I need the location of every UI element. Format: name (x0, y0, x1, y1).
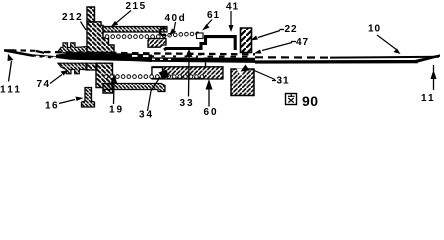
leader 31 (252, 70, 276, 81)
svg-text:215: 215 (126, 1, 147, 12)
hub upper block (87, 22, 114, 53)
small square at coil end (197, 33, 204, 39)
leader 10 (377, 35, 397, 50)
svg-text:61: 61 (207, 10, 220, 21)
svg-text:90: 90 (302, 93, 319, 109)
leader 34 (148, 77, 161, 111)
bar 16 (82, 88, 95, 108)
leader 22 (258, 31, 280, 38)
svg-text:19: 19 (109, 105, 124, 116)
strip 215 (103, 27, 167, 33)
leader 61 (207, 20, 212, 26)
leader 33 (188, 57, 191, 97)
needle upper wall step (36, 51, 44, 53)
svg-text:47: 47 (296, 37, 309, 48)
needle lower wall left (5, 51, 56, 58)
figure caption: CJK glyph approximation (286, 94, 297, 105)
svg-text:10: 10 (368, 24, 381, 35)
lower coil row (104, 75, 204, 79)
needle upper wall right (dashed then solid) (255, 56, 332, 58)
small hatched box 40d (148, 39, 166, 48)
notch in block 31 (237, 69, 246, 77)
leader 212 (81, 22, 87, 31)
leader 16 (59, 100, 75, 104)
leader 215 (116, 11, 131, 24)
needle shaft band under hub (56, 53, 152, 62)
svg-text:60: 60 (204, 107, 219, 118)
vertical bar 212 (87, 7, 95, 22)
upper coil row (105, 32, 199, 38)
bent rod (164, 37, 235, 50)
svg-text:74: 74 (37, 79, 51, 90)
lower strip (152, 67, 223, 79)
leader 60 (208, 90, 210, 107)
lower wedge part with teeth (58, 63, 87, 74)
white dots lower wall left (34, 57, 58, 58)
leader 47 (262, 42, 296, 51)
svg-text:11: 11 (421, 93, 436, 104)
needle lower wall right (255, 60, 418, 64)
hook ring (160, 28, 167, 35)
tick connector (205, 63, 207, 68)
mid step piece (86, 63, 97, 70)
needle left tip (4, 49, 14, 52)
svg-text:212: 212 (62, 12, 83, 23)
block 31 (231, 69, 254, 96)
svg-text:34: 34 (139, 110, 154, 121)
leader 11 (433, 65, 435, 90)
leader 19 (113, 84, 116, 104)
leader 74 (50, 75, 62, 84)
svg-text:33: 33 (180, 98, 195, 109)
hub lower block (96, 63, 113, 93)
bore dashed white line (36, 56, 56, 57)
svg-text:16: 16 (45, 101, 59, 112)
leader 111 (9, 61, 12, 82)
svg-text:41: 41 (226, 2, 239, 13)
needle upper wall left (dashed) (4, 49, 11, 51)
needle right tip bevel (413, 54, 440, 63)
bottom flange bar (103, 84, 165, 92)
lower strip left white box (152, 68, 163, 79)
upper wedge part with teeth (58, 43, 87, 53)
needle upper wall mid (dashed) (44, 52, 255, 54)
svg-text:111: 111 (0, 85, 22, 96)
block 22 (241, 28, 252, 53)
svg-text:31: 31 (277, 76, 290, 87)
leader 40d (174, 22, 176, 30)
leader 41 (230, 11, 232, 26)
svg-text:22: 22 (285, 24, 298, 35)
